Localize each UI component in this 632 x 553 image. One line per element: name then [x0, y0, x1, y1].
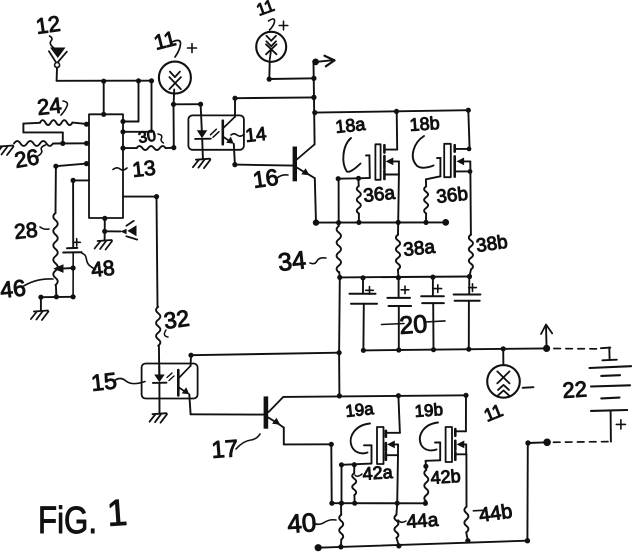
resistor 34	[338, 179, 340, 226]
MOSFET 18b drain	[456, 148, 470, 150]
wire Q16 emitter down	[315, 178, 316, 222]
ground below opto15	[150, 413, 168, 423]
IC U13 box	[89, 114, 123, 218]
wire 24 left lead	[23, 122, 40, 125]
opto14 phototransistor	[222, 121, 225, 145]
opto15 phototransistor	[177, 370, 180, 395]
svg-text:28: 28	[13, 219, 39, 244]
capacitor 20-4	[468, 277, 470, 295]
wire opto14 emitter to Q16 base	[235, 165, 293, 166]
svg-text:11: 11	[481, 400, 506, 426]
node top rail junctions	[101, 79, 106, 84]
wire vertical x314	[314, 62, 315, 145]
wire down to IC top	[103, 81, 105, 114]
svg-text:46: 46	[0, 274, 27, 303]
MOSFET 19a channel	[385, 431, 388, 437]
MOSFET 18a body arrow	[386, 158, 394, 166]
wire 19a gate path	[364, 444, 372, 446]
wire down x151 to IC pin	[151, 81, 153, 132]
transistor Q16	[293, 147, 297, 182]
opto14 LED light marks	[210, 129, 216, 135]
optocoupler U15 box	[142, 364, 198, 399]
resistor 38b	[469, 235, 473, 270]
MOSFET 19b source	[456, 453, 466, 455]
resistor 38a	[397, 222, 399, 234]
wire node down to resistor 30	[173, 104, 175, 147]
svg-text:FiG.: FiG.	[38, 500, 97, 542]
MOSFET 19b channel	[454, 429, 457, 436]
output arrow top	[312, 59, 319, 66]
lamp 11 top-left	[159, 62, 191, 94]
svg-text:14: 14	[244, 124, 268, 147]
lamp 11 right	[487, 365, 520, 398]
svg-text:30: 30	[137, 128, 157, 147]
indicator LED at IC bottom	[120, 229, 126, 235]
MOSFET 18b gate bar	[444, 144, 451, 177]
opto15 LED light marks	[167, 373, 172, 378]
svg-text:16: 16	[251, 164, 280, 193]
battery top hook	[601, 347, 610, 350]
battery plus label	[616, 423, 625, 425]
wire rail y222	[316, 221, 446, 223]
label 13	[113, 168, 127, 170]
resistor 36b	[425, 179, 427, 186]
resistor 42a	[353, 465, 355, 473]
ground far-left	[0, 146, 14, 156]
MOSFET 19b body arrow	[457, 441, 465, 449]
ground below IC	[104, 231, 106, 240]
svg-text:36a: 36a	[362, 183, 396, 207]
svg-text:42a: 42a	[362, 462, 394, 484]
wire stub to LED	[105, 230, 121, 232]
wire 24 bracket	[22, 124, 24, 133]
opto14 LED	[197, 130, 208, 138]
label 14	[231, 134, 244, 136]
svg-text:18b: 18b	[409, 113, 440, 135]
svg-text:44a: 44a	[406, 510, 440, 533]
wire node to opto LED	[174, 103, 201, 105]
optocoupler U14 box	[188, 115, 244, 149]
svg-text:13: 13	[131, 157, 157, 182]
svg-text:17: 17	[211, 435, 240, 464]
wire down x138 to IC pin	[138, 81, 140, 122]
lamp 11 top-middle	[256, 32, 286, 62]
wire bottom rail	[318, 541, 527, 548]
svg-text:12: 12	[34, 11, 62, 39]
up arrow at battery	[545, 326, 548, 348]
svg-text:11: 11	[254, 0, 277, 20]
svg-text:26: 26	[13, 144, 41, 173]
wire 19b gate path	[435, 442, 440, 444]
battery bottom terminal	[610, 411, 612, 442]
MOSFET 19a source	[387, 454, 398, 456]
wire x339 mid vertical	[338, 277, 341, 352]
IC bottom stub	[104, 218, 106, 231]
wire lamp node right	[269, 77, 314, 80]
MOSFET 19b gate bar	[446, 427, 452, 462]
MOSFET 19a gate bar	[377, 427, 384, 464]
node battery return	[543, 439, 551, 447]
MOSFET 19b drain	[456, 430, 466, 432]
wire IC pin y196 right	[123, 196, 157, 198]
wire opto15 collector up	[190, 355, 192, 366]
MOSFET 19a body arrow	[387, 441, 395, 449]
label 20	[382, 324, 405, 325]
MOSFET 19a drain	[387, 432, 400, 434]
svg-text:42b: 42b	[430, 466, 461, 488]
svg-text:22: 22	[562, 376, 588, 403]
wire opto14 collector up	[234, 98, 236, 117]
svg-text:44b: 44b	[478, 501, 514, 527]
svg-text:24: 24	[36, 93, 63, 120]
resistor 44a	[395, 503, 398, 515]
resistor 24	[40, 120, 72, 125]
resistor 26	[14, 141, 53, 146]
svg-text:18a: 18a	[334, 114, 367, 137]
wire cap rail bottom	[363, 348, 547, 350]
wire cap rail top	[340, 276, 470, 279]
svg-text:36b: 36b	[435, 184, 469, 208]
wire 18b gate path	[426, 176, 441, 179]
capacitor 20-1	[362, 278, 364, 294]
wire opto15 emitter down	[189, 394, 190, 414]
battery 22 plates	[590, 366, 632, 368]
wire opto15 LED to ground	[158, 383, 160, 413]
wire Q17 emitter path	[283, 428, 285, 445]
wire opto15 emitter to Q17 base	[191, 413, 264, 415]
wire opto14 emitter down	[234, 144, 235, 165]
MOSFET 18a gate bar	[375, 144, 380, 180]
opto15 LED	[158, 366, 160, 375]
wire IC pin to resistor 28	[56, 164, 87, 167]
MOSFET 18b channel	[453, 145, 456, 151]
wire IC pin y180 to cap 48	[73, 179, 89, 181]
resistor 36a	[357, 178, 359, 186]
resistor 32	[157, 197, 158, 307]
wire opto15 collector long	[191, 353, 339, 356]
wire lamp to node	[173, 90, 176, 105]
wire into opto14 LED	[201, 104, 202, 130]
wire bracket tick to 26	[62, 132, 64, 143]
MOSFET 18b body arrow	[456, 158, 464, 166]
svg-text:20: 20	[398, 310, 428, 340]
svg-text:38b: 38b	[475, 232, 509, 257]
minus sign lamp 11c	[523, 386, 534, 389]
MOSFET 18b source	[455, 170, 469, 172]
capacitor 20-3	[432, 277, 434, 296]
wire battery return down	[526, 443, 528, 541]
resistor 40	[340, 503, 342, 515]
wire 26 to IC	[53, 142, 89, 144]
wire rail y112	[315, 110, 469, 112]
dashed wire battery bottom	[552, 441, 608, 444]
wire top rail y81	[57, 80, 152, 82]
ground below opto14	[193, 159, 211, 169]
svg-text:38a: 38a	[402, 237, 436, 261]
svg-text:1: 1	[106, 492, 129, 534]
capacitor 20-2	[398, 278, 400, 298]
ground below 46	[40, 297, 42, 310]
resistor 42b	[425, 466, 427, 470]
wire rail y396	[283, 395, 466, 397]
transistor Q17	[264, 396, 269, 428]
svg-text:19a: 19a	[344, 399, 375, 421]
wire lamp down	[268, 62, 270, 79]
MOSFET 18a drain	[385, 149, 397, 151]
resistor 28 / potentiometer	[55, 166, 57, 213]
wire opto14 LED to ground	[201, 139, 204, 159]
svg-text:19b: 19b	[414, 400, 444, 421]
MOSFET 18a channel	[383, 145, 386, 152]
wire gate19a down	[341, 465, 343, 503]
wire lamp 11c stub	[502, 349, 504, 365]
wire 18a gate path	[336, 176, 341, 181]
wire 24 right lead	[72, 123, 89, 125]
resistor 30	[123, 147, 137, 149]
wire rail y503	[332, 502, 426, 504]
pot 46 wiper arrow	[53, 264, 63, 273]
MOSFET 18a source	[385, 174, 399, 176]
wire bottom of 28/48	[41, 296, 73, 298]
dashed wire to battery top	[554, 348, 599, 350]
wire opto14 collector to node	[235, 96, 314, 99]
capacitor 48	[72, 180, 74, 247]
resistor 44b	[464, 507, 468, 533]
photodiode 12 symbol	[50, 48, 66, 59]
wire photodiode down	[56, 68, 58, 81]
svg-text:34: 34	[277, 246, 308, 277]
